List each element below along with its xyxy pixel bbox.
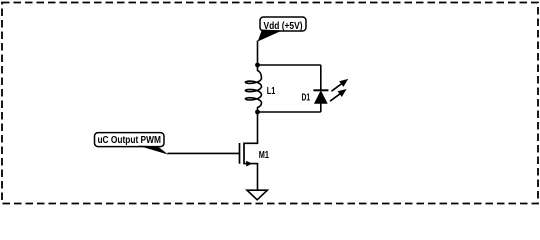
callout tail to gate wire: [138, 146, 168, 155]
wire drain: [244, 112, 258, 143]
node junction top: [255, 63, 260, 68]
LED D1 triangle: [315, 91, 327, 103]
wire LED branch bottom: [320, 103, 322, 112]
svg-text:D1: D1: [302, 93, 311, 104]
LED light arrow upper: [332, 79, 349, 91]
wire bottom rail: [258, 111, 321, 113]
callout tail to Vdd net: [258, 30, 282, 42]
transistor M1 source arrow: [246, 161, 252, 167]
node junction bottom: [255, 110, 260, 115]
wire LED branch top: [320, 65, 322, 90]
wire gate: [168, 152, 241, 154]
transistor M1 channel plate: [243, 143, 245, 165]
ground: [247, 190, 267, 200]
transistor M1 gate plate: [239, 143, 241, 164]
inductor L1: [245, 65, 261, 112]
svg-text:M1: M1: [259, 150, 270, 161]
uC Output PWM callout box: [95, 133, 165, 147]
LED light arrow lower: [330, 89, 347, 101]
LED D1 cathode bar: [313, 89, 328, 91]
transistor M1 source segment: [244, 164, 258, 191]
svg-text:L1: L1: [267, 86, 276, 97]
svg-text:uC Output PWM: uC Output PWM: [97, 135, 161, 146]
power flag Vdd callout box: [260, 17, 306, 32]
wire top rail: [258, 64, 321, 66]
wire Vdd to node: [257, 41, 259, 66]
